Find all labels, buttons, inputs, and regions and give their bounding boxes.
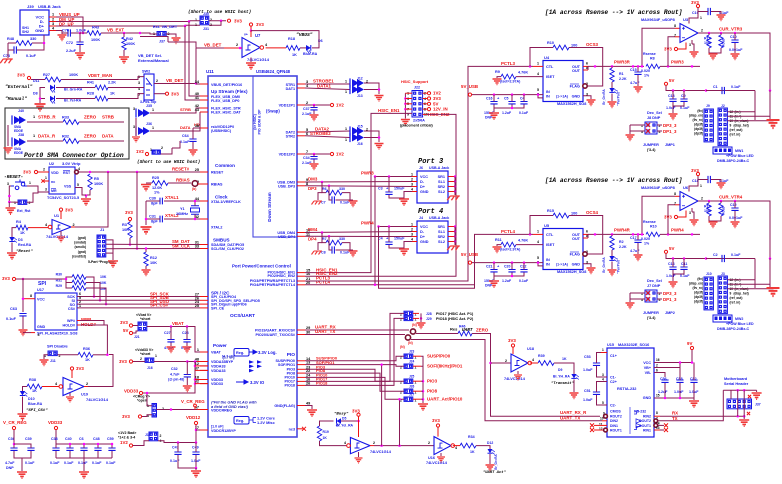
- svg-text:"SPI_CS#": "SPI_CS#": [26, 408, 48, 413]
- wire VB_EXT to VBUS_DET riser: [140, 37, 168, 43]
- svg-text:PIO3: PIO3: [427, 379, 438, 384]
- svg-text:(disp_het): (disp_het): [734, 124, 749, 128]
- svg-text:U11: U11: [206, 69, 214, 74]
- svg-text:VDD33: VDD33: [211, 382, 223, 386]
- svg-text:0.1uF: 0.1uF: [519, 111, 529, 115]
- svg-text:5V: 5V: [669, 246, 674, 251]
- svg-text:DIN1: DIN1: [610, 424, 618, 428]
- svg-text:Ext_Rst: Ext_Rst: [17, 209, 31, 213]
- ground R25: [146, 182, 152, 184]
- svg-text:RESET: RESET: [211, 171, 224, 175]
- sense wire +: [642, 28, 675, 66]
- svg-text:Br_Gr=RA: Br_Gr=RA: [494, 454, 498, 470]
- svg-text:U17: U17: [37, 288, 44, 292]
- svg-text:PIO17 (HSIC Act. P1): PIO17 (HSIC Act. P1): [436, 312, 474, 316]
- svg-text:R28: R28: [87, 92, 94, 96]
- svg-text:R10: R10: [650, 225, 657, 229]
- wire sense vert right: [754, 91, 756, 121]
- wire SPI_SCK: [77, 296, 200, 298]
- ground D12: [489, 454, 491, 464]
- svg-text:GND: GND: [37, 325, 46, 329]
- pin 48 VDDA33BYP: [200, 361, 208, 363]
- svg-text:(USB/HSIC): (USB/HSIC): [211, 129, 232, 133]
- svg-text:R25: R25: [152, 176, 159, 180]
- pin 49 RBIAS: [200, 183, 208, 185]
- svg-text:"Reset": "Reset": [16, 249, 33, 254]
- ground 5V caps: [673, 270, 684, 274]
- svg-text:C13: C13: [668, 94, 675, 98]
- svg-text:1%: 1%: [644, 242, 650, 246]
- wire PIO18: [305, 318, 404, 385]
- wire vcc opamp: [689, 12, 698, 24]
- resistor R42 100K: [123, 32, 126, 35]
- svg-text:7: 7: [674, 202, 676, 206]
- svg-text:1: 1: [45, 176, 47, 180]
- svg-text:DMB-28PO-24Bx-C: DMB-28PO-24Bx-C: [717, 327, 750, 331]
- svg-text:(N): (N): [412, 323, 417, 327]
- svg-text:J25: J25: [409, 375, 415, 379]
- ground J22 left: [404, 93, 406, 118]
- svg-text:(N): (N): [408, 341, 413, 345]
- wire U1 out: [71, 226, 75, 228]
- svg-text:<1V2 Bad>: <1V2 Bad>: [118, 431, 136, 435]
- port 5V block: [664, 82, 667, 85]
- svg-text:JMP2: JMP2: [665, 311, 675, 315]
- svg-text:R15: R15: [547, 209, 554, 213]
- svg-text:*1+2 & 3-4: *1+2 & 3-4: [118, 436, 135, 440]
- svg-text:R19: R19: [323, 430, 329, 434]
- svg-text:33: 33: [195, 245, 199, 249]
- ground connector right: [767, 120, 780, 128]
- pin 37 VDDA33: [200, 369, 208, 371]
- wire VB_DET riser: [195, 48, 197, 84]
- svg-text:1.0uF: 1.0uF: [583, 368, 593, 372]
- svg-text:0.020: 0.020: [641, 69, 650, 73]
- svg-text:J26: J26: [409, 385, 415, 389]
- svg-text:FLAG: FLAG: [570, 85, 580, 89]
- svg-text:DMB-28PO-24Bx-C: DMB-28PO-24Bx-C: [717, 159, 750, 163]
- ground C37: [313, 111, 315, 115]
- svg-text:MAX1562H_SO8: MAX1562H_SO8: [557, 102, 586, 106]
- svg-text:FLAG: FLAG: [570, 253, 580, 257]
- svg-text:"Manual": "Manual": [5, 96, 27, 102]
- ground opamp: [691, 208, 693, 212]
- header J28 PIO17: [404, 311, 413, 315]
- wire PCTL4 long: [305, 234, 533, 284]
- svg-text:R39: R39: [538, 354, 545, 358]
- wire STROBE2: [305, 136, 350, 138]
- wire SPI_CS#: [77, 307, 200, 309]
- svg-text:2.2K: 2.2K: [108, 81, 116, 85]
- wire J25 pin2: [27, 192, 38, 202]
- header J18: [149, 432, 158, 441]
- ground serial bottom: [743, 416, 745, 419]
- svg-text:DP4: DP4: [308, 237, 317, 242]
- ground C27: [170, 343, 172, 347]
- port 3V3 U7: [249, 23, 252, 26]
- svg-text:GND: GND: [572, 263, 581, 267]
- svg-text:Rsense: Rsense: [643, 52, 656, 56]
- svg-text:0.1uF: 0.1uF: [680, 106, 690, 110]
- wire DATA2: [305, 131, 350, 132]
- svg-text:(rsvd/tst): (rsvd/tst): [72, 254, 86, 258]
- wire SM_DAT: [106, 243, 200, 245]
- pin 16 PIO17: [297, 380, 305, 382]
- svg-text:C27: C27: [164, 331, 171, 335]
- svg-text:Rsense: Rsense: [643, 220, 656, 224]
- svg-text:PWR4: PWR4: [361, 220, 374, 225]
- svg-text:C1-: C1-: [610, 376, 617, 380]
- svg-text:SOF/(8KHz)/PIO1: SOF/(8KHz)/PIO1: [427, 364, 463, 369]
- svg-text:PIO18: PIO18: [285, 384, 295, 388]
- wire U8 out: [370, 445, 374, 447]
- svg-text:U1: U1: [54, 213, 60, 218]
- wire vb_det link: [168, 42, 196, 48]
- svg-text:C49: C49: [192, 446, 199, 450]
- svg-text:VDDCRREG: VDDCRREG: [211, 409, 232, 413]
- svg-text:(gnd): (gnd): [78, 250, 86, 254]
- svg-text:(disp_en): (disp_en): [689, 114, 703, 118]
- svg-text:VDDCR12BYP: VDDCR12BYP: [211, 429, 236, 433]
- svg-text:1K: 1K: [323, 436, 328, 440]
- svg-text:12V_IN: 12V_IN: [433, 107, 448, 112]
- svg-text:VBAT: VBAT: [172, 321, 184, 326]
- pwr3 riser: [374, 177, 376, 285]
- wire DATA1 gnd: [364, 90, 379, 95]
- ground ISET: [497, 77, 501, 78]
- svg-text:R29: R29: [56, 284, 62, 288]
- svg-text:1.0uF: 1.0uF: [674, 390, 684, 394]
- wire j18 to vdd12: [158, 441, 196, 443]
- svg-text:Y1: Y1: [180, 207, 185, 211]
- svg-text:RX: RX: [672, 411, 678, 416]
- svg-text:VSS: VSS: [64, 185, 72, 189]
- svg-text:R9: R9: [495, 70, 500, 74]
- svg-text:30: 30: [306, 331, 310, 335]
- svg-text:J31: J31: [203, 27, 209, 31]
- svg-text:3: 3: [138, 81, 140, 85]
- svg-text:D+: D+: [420, 235, 426, 239]
- svg-text:43: 43: [195, 108, 199, 112]
- svg-text:C21: C21: [486, 265, 492, 269]
- svg-text:4.7uF: 4.7uF: [630, 249, 640, 253]
- svg-text:MAX1562H_SO8: MAX1562H_SO8: [557, 270, 586, 274]
- svg-text:100: 100: [571, 43, 577, 47]
- pin 41 DP0: [200, 99, 208, 101]
- wire U8 riser: [381, 365, 383, 446]
- svg-text:Port0 SMA Connector Option: Port0 SMA Connector Option: [24, 152, 124, 159]
- svg-text:SPI Disable: SPI Disable: [47, 345, 68, 349]
- wire DM to J30: [189, 20, 200, 23]
- svg-text:DNP: DNP: [485, 284, 493, 288]
- svg-text:(ref_out): (ref_out): [730, 128, 743, 132]
- wire DP3: [305, 185, 412, 188]
- wires connector: [727, 280, 755, 288]
- wire DM down to IC: [189, 22, 200, 97]
- wire PIO17: [305, 313, 404, 381]
- wire WP HOLD: [77, 320, 80, 322]
- ground IN caps: [494, 105, 524, 109]
- svg-text:C72: C72: [66, 41, 73, 45]
- svg-text:0.1uF: 0.1uF: [6, 317, 17, 321]
- svg-text:3V3: 3V3: [256, 22, 264, 27]
- svg-text:1%: 1%: [154, 191, 160, 195]
- svg-text:DP1_3: DP1_3: [663, 129, 677, 134]
- port 1V2 j22: [423, 92, 427, 94]
- svg-text:V_CR_REG: V_CR_REG: [3, 420, 27, 425]
- svg-text:(ref_in): (ref_in): [730, 133, 741, 137]
- svg-text:Dec_Sel: Dec_Sel: [647, 111, 662, 115]
- wire J31 pin2: [209, 21, 221, 26]
- svg-text:VB-: VB-: [645, 371, 652, 375]
- svg-text:JMP1: JMP1: [665, 143, 675, 147]
- svg-text:VCC: VCC: [643, 361, 651, 365]
- svg-text:(1->1A): (1->1A): [556, 95, 568, 99]
- svg-text:R38: R38: [29, 378, 36, 382]
- arrow 3.3V IO: [236, 380, 248, 384]
- svg-text:"Transmit": "Transmit": [551, 381, 575, 386]
- svg-text:3.0V Vtrip: 3.0V Vtrip: [62, 161, 81, 166]
- svg-text:SOF/PIO1: SOF/PIO1: [278, 363, 295, 367]
- ground XTAL: [145, 201, 147, 225]
- ground pio headers: [421, 356, 423, 366]
- svg-text:"VBUS": "VBUS": [296, 32, 313, 38]
- svg-text:0.1uF: 0.1uF: [92, 461, 102, 465]
- ring ROUT2: [604, 414, 608, 418]
- pin 43 HSIC_DAT: [200, 111, 208, 113]
- svg-text:J2: J2: [721, 104, 725, 108]
- svg-text:4: 4: [602, 378, 604, 382]
- wires connector: [727, 112, 755, 120]
- svg-text:R18: R18: [288, 37, 295, 41]
- svg-text:(gnd): (gnd): [78, 236, 86, 240]
- svg-text:Dec_Sel: Dec_Sel: [647, 279, 662, 283]
- svg-text:2: 2: [210, 18, 212, 22]
- svg-text:(ref_out): (ref_out): [730, 296, 743, 300]
- port 3V3 top: [696, 172, 699, 175]
- svg-text:2x5RA: 2x5RA: [413, 119, 425, 123]
- ground U GND pin: [583, 264, 591, 267]
- svg-text:3V3: 3V3: [65, 208, 73, 213]
- wire GND4: [389, 242, 412, 249]
- svg-text:GND(FLAG): GND(FLAG): [274, 404, 295, 408]
- svg-text:0.1uF: 0.1uF: [519, 279, 529, 283]
- svg-text:OCS3: OCS3: [586, 42, 599, 47]
- wire uart tx vert: [411, 340, 602, 421]
- svg-text:J15: J15: [357, 125, 363, 129]
- wire VDD33: [143, 371, 195, 394]
- net HSIC_EN2 j22: [423, 113, 427, 115]
- svg-text:J24: J24: [409, 360, 415, 364]
- svg-text:PIO8: PIO8: [427, 389, 438, 394]
- svg-text:3V3: 3V3: [2, 276, 10, 281]
- svg-text:R10: R10: [547, 41, 554, 45]
- svg-text:UART_Act/PIO10: UART_Act/PIO10: [427, 397, 463, 402]
- pin 24 PIO10: [297, 376, 305, 378]
- svg-text:2: 2: [52, 18, 54, 22]
- svg-text:Bl_Grn-RA: Bl_Grn-RA: [64, 88, 83, 92]
- svg-text:2: 2: [428, 441, 430, 445]
- ground D2: [611, 262, 613, 270]
- svg-text:XTAL1/VREFCLK: XTAL1/VREFCLK: [211, 200, 241, 204]
- svg-text:R32: R32: [62, 135, 69, 139]
- svg-text:*short: *short: [140, 352, 151, 356]
- svg-text:3V3: 3V3: [120, 320, 128, 325]
- svg-text:RST: RST: [63, 171, 71, 175]
- pin 29 UART_RX: [297, 329, 305, 331]
- svg-text:C1: C1: [713, 85, 718, 89]
- svg-text:0.1uF: 0.1uF: [26, 54, 37, 58]
- svg-text:PIO4/PRTPWR4/PRTCTL4: PIO4/PRTPWR4/PRTCTL4: [250, 283, 296, 287]
- svg-text:2: 2: [140, 357, 142, 361]
- svg-text:Port 4: Port 4: [418, 208, 443, 216]
- svg-text:3V3: 3V3: [433, 96, 441, 101]
- svg-text:C40: C40: [65, 437, 72, 441]
- pin 34 VBUS_DET: [200, 83, 208, 85]
- svg-text:3V3: 3V3: [234, 19, 242, 24]
- svg-text:C14: C14: [668, 262, 675, 266]
- header J8 jumper: [645, 122, 657, 134]
- svg-text:D5: D5: [342, 417, 346, 421]
- port 5V block: [664, 250, 667, 253]
- svg-text:9: 9: [730, 124, 732, 128]
- svg-text:UART_TX: UART_TX: [560, 415, 580, 420]
- svg-text:4.76K: 4.76K: [518, 71, 528, 75]
- svg-text:UART_TX: UART_TX: [315, 329, 335, 334]
- wire DATA2 gnd: [364, 131, 379, 142]
- svg-text:DAT1: DAT1: [286, 87, 295, 91]
- svg-text:2.2K: 2.2K: [619, 245, 627, 249]
- port 3V3 j22: [423, 98, 427, 100]
- ground SW1: [8, 202, 10, 207]
- port 1V2 p1: [330, 103, 333, 106]
- svg-text:1: 1: [195, 18, 197, 22]
- svg-text:1K: 1K: [470, 450, 475, 454]
- svg-text:DATA: DATA: [102, 134, 114, 139]
- wire STROBE1 gnd: [364, 83, 379, 94]
- svg-text:0.001uF: 0.001uF: [729, 216, 743, 220]
- svg-text:RBIAS: RBIAS: [176, 178, 190, 183]
- wire SUSP: [305, 356, 404, 361]
- svg-text:PCTL3: PCTL3: [501, 61, 515, 66]
- ground C4: [399, 249, 409, 255]
- svg-text:3V3: 3V3: [23, 170, 31, 175]
- svg-text:GND: GND: [35, 28, 44, 33]
- svg-text:3: 3: [45, 188, 47, 192]
- svg-text:SR2: SR2: [438, 235, 445, 239]
- header J29 PIO18: [404, 316, 413, 320]
- wire SPI_SDI: [77, 299, 200, 301]
- svg-text:1V2: 1V2: [136, 149, 144, 154]
- svg-text:HSIC_EN1: HSIC_EN1: [378, 108, 400, 113]
- svg-text:C73: C73: [3, 54, 10, 58]
- svg-text:"PwrPort": "PwrPort": [617, 258, 621, 274]
- svg-text:(9v_rx): (9v_rx): [693, 286, 703, 290]
- ground J37: [172, 38, 181, 44]
- svg-text:CS#: CS#: [68, 307, 75, 311]
- ground U2: [81, 199, 91, 205]
- svg-text:R48: R48: [7, 37, 14, 41]
- svg-text:1.0uF: 1.0uF: [76, 29, 87, 33]
- svg-text:MR: MR: [51, 189, 57, 193]
- wire HSIC_EN2: [305, 114, 456, 276]
- nc marks right: [658, 424, 664, 426]
- wire IN rail: [472, 94, 543, 96]
- wire serial top: [723, 389, 756, 391]
- svg-text:1V2: 1V2: [120, 440, 128, 445]
- svg-text:4: 4: [78, 167, 80, 171]
- svg-text:ZERO: ZERO: [84, 115, 97, 120]
- svg-text:1: 1: [152, 108, 154, 112]
- svg-text:PCTL4: PCTL4: [501, 229, 515, 234]
- svg-text:J40: J40: [18, 109, 24, 113]
- svg-text:"External": "External": [5, 84, 33, 90]
- wire U19 gnd: [69, 393, 71, 396]
- svg-text:D9: D9: [558, 368, 562, 372]
- svg-text:CUR_VTR4: CUR_VTR4: [719, 195, 743, 200]
- svg-text:2: 2: [29, 201, 31, 205]
- wire U19 out: [84, 386, 88, 388]
- svg-text:V_CR_REG: V_CR_REG: [181, 399, 205, 404]
- svg-text:Clock: Clock: [215, 195, 228, 200]
- chassis ground R7: [318, 243, 322, 250]
- ground R13 Rout: [709, 48, 713, 53]
- wire VCC 5V: [690, 346, 693, 349]
- svg-text:25: 25: [195, 168, 199, 172]
- svg-text:VDD12P2: VDD12P2: [279, 153, 295, 157]
- pin 12 VDDA33: [200, 365, 208, 367]
- svg-text:SH2: SH2: [22, 30, 29, 34]
- svg-text:100K: 100K: [91, 38, 100, 42]
- svg-text:5V: 5V: [123, 328, 128, 333]
- wire U1 gnd: [60, 231, 62, 236]
- svg-text:15: 15: [656, 394, 660, 398]
- svg-text:R43: R43: [92, 26, 99, 30]
- svg-text:4: 4: [537, 240, 539, 244]
- pin 13 SOF: [297, 364, 305, 366]
- wire PIO10: [305, 377, 404, 399]
- ground R13 Rout: [709, 216, 713, 221]
- wire SM_CLK: [106, 248, 200, 250]
- svg-text:DATA_R: DATA_R: [38, 134, 56, 139]
- svg-text:1: 1: [602, 348, 604, 352]
- wire DP4: [305, 235, 412, 237]
- ground jack: [58, 35, 67, 41]
- svg-text:(Iset=2.97A): (Iset=2.97A): [500, 80, 521, 84]
- inverter U16 74LVC1G14: [434, 437, 451, 455]
- svg-text:GND: GND: [643, 396, 652, 400]
- ground top cap: [716, 12, 721, 15]
- svg-text:VCC: VCC: [37, 298, 45, 302]
- wire 5V rail: [666, 254, 755, 259]
- box Port0 SMA Connector Option: [5, 108, 129, 159]
- svg-text:C16: C16: [486, 97, 492, 101]
- svg-text:(Short to use HSIC host): (Short to use HSIC host): [188, 10, 251, 15]
- capacitor bank VDD33: C38 C40 C6 C48 C59: [55, 430, 57, 444]
- svg-text:0.1uF: 0.1uF: [170, 459, 180, 463]
- wire J37 gnd: [166, 34, 176, 37]
- wire DM_UP: [56, 21, 189, 23]
- pin 40 DM0: [200, 95, 208, 97]
- svg-text:0.1uF: 0.1uF: [78, 461, 88, 465]
- svg-text:Br_Gr=RA: Br_Gr=RA: [602, 89, 606, 105]
- svg-text:DM4: DM4: [308, 227, 318, 232]
- svg-text:3V3: 3V3: [664, 47, 672, 52]
- svg-text:3: 3: [7, 182, 9, 186]
- wire VSS gnd: [75, 188, 86, 196]
- svg-text:2: 2: [160, 434, 162, 438]
- ground bank2: [56, 457, 112, 459]
